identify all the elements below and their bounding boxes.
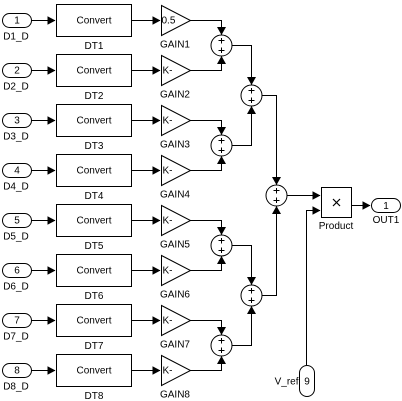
sum S5 bbox=[241, 85, 262, 106]
wire GAIN7 to sum S4 top bbox=[191, 321, 227, 336]
wire Product to OUT1 bbox=[352, 201, 371, 210]
wire GAIN8 to sum S4 bottom bbox=[191, 356, 227, 371]
wire GAIN1 to sum S1 top bbox=[191, 21, 227, 36]
wire inport 3 to DT3 bbox=[32, 116, 56, 125]
wire GAIN3 to sum S2 top bbox=[191, 121, 227, 136]
svg-text:DT4: DT4 bbox=[85, 191, 104, 202]
wire GAIN6 to sum S3 bottom bbox=[191, 256, 227, 271]
svg-text:K-: K- bbox=[163, 266, 173, 277]
wire inport 7 to DT7 bbox=[32, 316, 56, 325]
svg-text:K-: K- bbox=[163, 316, 173, 327]
svg-text:Convert: Convert bbox=[76, 366, 111, 377]
block DT6 (Convert) bbox=[57, 255, 132, 303]
wire DT4 to GAIN4 bbox=[132, 166, 161, 175]
block DT4 (Convert) bbox=[57, 155, 132, 203]
inport 3 (D3_D) bbox=[3, 114, 32, 143]
wire DT6 to GAIN6 bbox=[132, 266, 161, 275]
svg-text:DT2: DT2 bbox=[85, 91, 104, 102]
svg-text:4: 4 bbox=[14, 166, 20, 177]
wire inport 1 to DT1 bbox=[32, 16, 56, 25]
svg-text:D8_D: D8_D bbox=[3, 382, 29, 393]
svg-text:1: 1 bbox=[383, 201, 389, 212]
block DT5 (Convert) bbox=[57, 205, 132, 253]
inport 6 (D6_D) bbox=[3, 264, 32, 293]
inport 9 (V_ref) bbox=[275, 366, 315, 397]
wire GAIN2 to sum S1 bottom bbox=[191, 56, 227, 71]
svg-text:DT6: DT6 bbox=[85, 291, 104, 302]
inport 8 (D8_D) bbox=[3, 364, 32, 393]
wire sum S6 to sum S7 bottom bbox=[262, 206, 281, 296]
svg-text:Convert: Convert bbox=[76, 66, 111, 77]
svg-text:GAIN3: GAIN3 bbox=[160, 140, 190, 151]
sum S6 bbox=[241, 285, 262, 306]
svg-text:GAIN4: GAIN4 bbox=[160, 190, 190, 201]
svg-text:Convert: Convert bbox=[76, 316, 111, 327]
svg-text:GAIN2: GAIN2 bbox=[160, 90, 190, 101]
svg-text:GAIN5: GAIN5 bbox=[160, 240, 190, 251]
wire DT5 to GAIN5 bbox=[132, 216, 161, 225]
svg-text:7: 7 bbox=[14, 316, 20, 327]
gain GAIN6 value K- bbox=[160, 256, 191, 301]
wire sum S3 to sum S6 top bbox=[232, 246, 256, 286]
gain GAIN5 value K- bbox=[160, 206, 191, 251]
svg-text:D5_D: D5_D bbox=[3, 232, 29, 243]
inport 2 (D2_D) bbox=[3, 64, 32, 93]
wire inport 8 to DT8 bbox=[32, 366, 56, 375]
wire sum S1 to sum S5 top bbox=[232, 46, 256, 86]
svg-text:K-: K- bbox=[163, 216, 173, 227]
wire inport 4 to DT4 bbox=[32, 166, 56, 175]
block DT8 (Convert) bbox=[57, 355, 132, 401]
svg-text:D6_D: D6_D bbox=[3, 282, 29, 293]
svg-text:Convert: Convert bbox=[76, 16, 111, 27]
svg-text:K-: K- bbox=[163, 116, 173, 127]
outport 1 (OUT1) bbox=[372, 199, 401, 227]
svg-text:Convert: Convert bbox=[76, 116, 111, 127]
svg-text:V_ref: V_ref bbox=[275, 377, 299, 388]
wire sum S4 to sum S6 bottom bbox=[232, 306, 256, 346]
sum S1 bbox=[211, 35, 232, 56]
svg-text:Convert: Convert bbox=[76, 166, 111, 177]
sum S2 bbox=[211, 135, 232, 156]
svg-text:D3_D: D3_D bbox=[3, 132, 29, 143]
block DT2 (Convert) bbox=[57, 55, 132, 103]
svg-text:DT7: DT7 bbox=[85, 341, 104, 352]
wire sum S5 to sum S7 top bbox=[262, 96, 281, 186]
wire DT7 to GAIN7 bbox=[132, 316, 161, 325]
svg-text:DT8: DT8 bbox=[85, 391, 104, 401]
wire DT1 to GAIN1 bbox=[132, 16, 161, 25]
svg-text:3: 3 bbox=[14, 116, 20, 127]
svg-text:Convert: Convert bbox=[76, 266, 111, 277]
svg-text:Product: Product bbox=[319, 221, 354, 232]
block Product (multiply) bbox=[319, 188, 354, 233]
sum S3 bbox=[211, 235, 232, 256]
wire V_ref to Product input 2 bbox=[307, 206, 321, 365]
sum S7 bbox=[266, 185, 287, 206]
wire DT2 to GAIN2 bbox=[132, 66, 161, 75]
gain GAIN4 value K- bbox=[160, 156, 191, 201]
inport 5 (D5_D) bbox=[3, 214, 32, 243]
svg-text:0.5: 0.5 bbox=[162, 16, 176, 27]
svg-text:K-: K- bbox=[163, 166, 173, 177]
block DT1 (Convert) bbox=[57, 5, 132, 53]
gain GAIN8 value K- bbox=[160, 356, 191, 401]
wire inport 6 to DT6 bbox=[32, 266, 56, 275]
svg-text:OUT1: OUT1 bbox=[373, 215, 400, 226]
svg-text:GAIN6: GAIN6 bbox=[160, 290, 190, 301]
svg-text:GAIN7: GAIN7 bbox=[160, 340, 190, 351]
gain GAIN3 value K- bbox=[160, 106, 191, 151]
svg-text:Convert: Convert bbox=[76, 216, 111, 227]
svg-text:9: 9 bbox=[304, 377, 310, 388]
sum S4 bbox=[211, 335, 232, 356]
inport 7 (D7_D) bbox=[3, 314, 32, 343]
block DT7 (Convert) bbox=[57, 305, 132, 353]
svg-text:8: 8 bbox=[14, 366, 20, 377]
svg-text:K-: K- bbox=[163, 366, 173, 377]
gain GAIN1 value 0.5 bbox=[160, 6, 191, 51]
inport 4 (D4_D) bbox=[3, 164, 32, 193]
wire GAIN5 to sum S3 top bbox=[191, 221, 227, 236]
svg-text:6: 6 bbox=[14, 266, 20, 277]
block DT3 (Convert) bbox=[57, 105, 132, 153]
wire inport 5 to DT5 bbox=[32, 216, 56, 225]
gain GAIN2 value K- bbox=[160, 56, 191, 101]
svg-text:DT1: DT1 bbox=[85, 41, 104, 52]
svg-text:1: 1 bbox=[14, 16, 20, 27]
wire DT3 to GAIN3 bbox=[132, 116, 161, 125]
wire inport 2 to DT2 bbox=[32, 66, 56, 75]
svg-text:DT5: DT5 bbox=[85, 241, 104, 252]
wire DT8 to GAIN8 bbox=[132, 366, 161, 375]
wire GAIN4 to sum S2 bottom bbox=[191, 156, 227, 171]
svg-text:2: 2 bbox=[14, 66, 20, 77]
inport 1 (D1_D) bbox=[3, 14, 32, 43]
svg-text:D1_D: D1_D bbox=[3, 32, 29, 43]
svg-text:GAIN1: GAIN1 bbox=[160, 40, 190, 51]
svg-text:DT3: DT3 bbox=[85, 141, 104, 152]
svg-text:5: 5 bbox=[14, 216, 20, 227]
svg-text:K-: K- bbox=[163, 66, 173, 77]
gain GAIN7 value K- bbox=[160, 306, 191, 351]
svg-text:GAIN8: GAIN8 bbox=[160, 390, 190, 401]
svg-text:D7_D: D7_D bbox=[3, 332, 29, 343]
svg-text:D4_D: D4_D bbox=[3, 182, 29, 193]
svg-text:D2_D: D2_D bbox=[3, 82, 29, 93]
wire sum S7 to Product input 1 bbox=[287, 191, 321, 200]
wire sum S2 to sum S5 bottom bbox=[232, 106, 256, 146]
